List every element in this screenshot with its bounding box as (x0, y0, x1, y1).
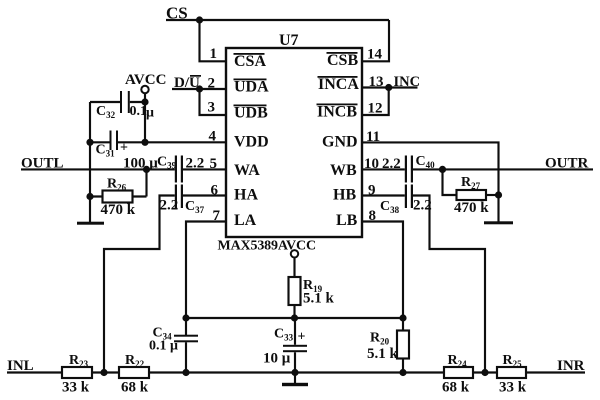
junction LA/rail (182, 314, 189, 321)
svg-text:WA: WA (234, 162, 260, 179)
label C39 value 2.2 (186, 156, 205, 172)
resistor R27 (443, 169, 499, 200)
node CS label (166, 4, 188, 23)
svg-text:470 k: 470 k (101, 202, 136, 218)
junction C34/input rail (182, 369, 189, 376)
svg-text:10 μ: 10 μ (263, 351, 291, 367)
junction CS/pin1 (196, 16, 203, 23)
node AVCC label (125, 72, 166, 88)
label C39 (157, 155, 177, 171)
pin 13 name INCA (318, 76, 360, 93)
resistor R23 (62, 367, 92, 378)
label C40 (416, 154, 436, 170)
label C38 (380, 199, 400, 215)
wire pin8 LB down (362, 222, 403, 319)
label R19 (303, 278, 323, 294)
resistor R22 (119, 367, 149, 378)
junction R20/input rail (399, 369, 406, 376)
svg-text:R24: R24 (448, 353, 468, 369)
wire input rail (7, 371, 585, 373)
wire CS to pin14 (362, 20, 389, 61)
node INL label (7, 358, 34, 374)
wire AVCC column (144, 93, 146, 142)
svg-text:5.1 k: 5.1 k (367, 346, 399, 362)
svg-text:CSA: CSA (234, 53, 266, 70)
svg-text:μ: μ (146, 106, 154, 121)
label R27 (461, 175, 481, 191)
label C40 value 2.2 (382, 156, 401, 172)
svg-text:WB: WB (330, 162, 357, 179)
label R19 value 5.1k (303, 291, 335, 307)
label R20 value 5.1k (367, 346, 399, 362)
svg-text:HB: HB (333, 187, 356, 204)
wire C40 to OUTR (413, 168, 593, 170)
ground left tick (77, 222, 104, 225)
resistor R19 (289, 277, 301, 318)
junction INC (385, 84, 392, 91)
svg-text:470 k: 470 k (454, 200, 489, 216)
capacitor C33 polarized (283, 318, 307, 383)
IC U7 MAX5389 (226, 48, 362, 237)
resistor R26 (90, 169, 147, 202)
wire CS horizontal (166, 19, 389, 21)
svg-text:5.1 k: 5.1 k (303, 291, 335, 307)
pin 3 name UDB (234, 105, 269, 122)
pin 1 name CSA (234, 53, 267, 70)
label R26 value 470k (101, 202, 136, 218)
wire ground column left (89, 102, 91, 223)
capacitor C40 (405, 156, 413, 183)
label C38 value 2.2 (413, 198, 432, 214)
svg-text:68 k: 68 k (442, 380, 470, 396)
capacitor C39 (175, 156, 183, 183)
label C31 plus (120, 141, 128, 156)
svg-text:CSB: CSB (327, 52, 358, 69)
capacitor C34 (174, 318, 198, 373)
svg-text:R26: R26 (107, 177, 127, 193)
label R26 (107, 177, 127, 193)
junction AVCC/C32 (141, 98, 148, 105)
junction R23/R22 (100, 369, 107, 376)
capacitor C31 polarized (110, 131, 119, 151)
svg-text:R23: R23 (69, 353, 89, 369)
svg-text:C40: C40 (416, 154, 436, 170)
wire D/U to pin2 (172, 88, 226, 90)
capacitor C32 (90, 91, 145, 113)
svg-text:INCB: INCB (317, 104, 357, 121)
node OUTL label (21, 156, 64, 172)
node D/U label with overline (174, 75, 201, 91)
label R25 value 33k (499, 380, 527, 396)
label R27 value 470k (454, 200, 489, 216)
wire pin2 to pin3 (200, 89, 227, 115)
resistor R25 (497, 367, 526, 378)
label R22 (125, 353, 145, 369)
wire VDD pin4 (90, 141, 226, 143)
junction OUTR/R27 (439, 166, 446, 173)
pin 2 name UDA (234, 79, 270, 96)
label R23 value 33k (62, 380, 90, 396)
svg-text:33 k: 33 k (62, 380, 90, 396)
label C32 (96, 104, 116, 120)
svg-text:LA: LA (234, 212, 257, 229)
wire CS to pin1 (200, 20, 227, 61)
label R23 (69, 353, 89, 369)
svg-text:33 k: 33 k (499, 380, 527, 396)
svg-text:HA: HA (234, 187, 258, 204)
junction LB/rail (399, 314, 406, 321)
ground right tick (484, 221, 513, 224)
svg-text:C37: C37 (185, 199, 205, 215)
svg-text:UDB: UDB (234, 105, 268, 122)
label C31 value 100u (123, 156, 158, 172)
capacitor C38 (405, 185, 413, 209)
svg-text:+: + (298, 330, 306, 345)
label C34 (153, 326, 173, 342)
junction R27/gnd column (495, 191, 502, 198)
junction gnd/C31 (86, 139, 93, 146)
svg-text:68 k: 68 k (121, 380, 149, 396)
label R20 (370, 331, 390, 347)
wire pin13 to pin12 (362, 88, 389, 116)
wire pin7 LA down (186, 222, 226, 319)
svg-text:3: 3 (208, 100, 216, 116)
svg-text:OUTR: OUTR (545, 156, 589, 172)
svg-text:R22: R22 (125, 353, 145, 369)
wire C38 to input node (413, 196, 485, 373)
svg-text:INC: INC (394, 74, 421, 90)
terminal AVCC circle bottom (291, 250, 298, 257)
junction R24/R25 (481, 369, 488, 376)
wire OUTL to C39 (21, 168, 175, 170)
svg-text:2.2: 2.2 (382, 156, 401, 172)
label C37 (185, 199, 205, 215)
wire pin13 to INC (362, 86, 418, 88)
svg-text:R25: R25 (503, 353, 523, 369)
svg-text:UDA: UDA (234, 79, 269, 96)
label C33 value 10u (263, 351, 291, 367)
wire C39 to pin5 (183, 168, 226, 170)
junction gnd/R26 (86, 193, 93, 200)
svg-text:C39: C39 (157, 155, 177, 171)
label C37 value 2.2 (160, 198, 179, 214)
wire bias rail (186, 317, 403, 319)
svg-text:C33: C33 (274, 327, 294, 343)
svg-text:MAX5389AVCC: MAX5389AVCC (218, 239, 316, 254)
pin 14 name CSB (327, 52, 359, 69)
resistor R20 (397, 318, 409, 373)
wire GND pin11 down (362, 142, 499, 222)
svg-text:0.1 μ: 0.1 μ (149, 339, 178, 354)
svg-text:2.2: 2.2 (160, 198, 179, 214)
svg-text:INR: INR (557, 358, 585, 374)
wire pin6 to C37 (183, 194, 226, 196)
svg-text:C31: C31 (96, 143, 116, 159)
ground C33 tick (282, 383, 308, 386)
junction D/U (196, 85, 203, 92)
label R25 (503, 353, 523, 369)
label C33 plus (298, 330, 306, 345)
svg-text:0.1: 0.1 (130, 104, 148, 119)
junction C33/input rail (291, 369, 298, 376)
svg-text:VDD: VDD (234, 134, 269, 151)
svg-text:U7: U7 (279, 32, 299, 49)
pin 12 name INCB (317, 104, 358, 121)
label R24 value 68k (442, 380, 470, 396)
resistor R24 (444, 367, 473, 378)
terminal AVCC circle (141, 86, 148, 93)
label C34 value 0.1u (149, 339, 178, 354)
wire C37 to input node (104, 196, 175, 373)
svg-text:C38: C38 (380, 199, 400, 215)
wire pin9 to C38 (362, 194, 405, 196)
node INC label (394, 74, 421, 90)
svg-text:14: 14 (367, 47, 383, 63)
svg-text:1: 1 (210, 46, 218, 62)
svg-text:R27: R27 (461, 175, 481, 191)
svg-text:GND: GND (322, 134, 358, 151)
node OUTR label (545, 156, 589, 172)
label C33 (274, 327, 294, 343)
junction AVCC/VDD (141, 139, 148, 146)
wire pin10 to C40 (362, 168, 405, 170)
capacitor C37 (175, 185, 183, 209)
junction OUTL/R26 (143, 166, 150, 173)
svg-text:C32: C32 (96, 104, 116, 120)
wire AVCC to R19 (293, 258, 295, 278)
label C31 (96, 143, 116, 159)
junction R19/rail (291, 314, 298, 321)
label R22 value 68k (121, 380, 149, 396)
label C32 value 0.1u (130, 104, 155, 121)
label R24 (448, 353, 468, 369)
svg-text:LB: LB (336, 212, 358, 229)
node INR label (557, 358, 585, 374)
svg-text:INCA: INCA (318, 76, 359, 93)
svg-text:R20: R20 (370, 331, 390, 347)
